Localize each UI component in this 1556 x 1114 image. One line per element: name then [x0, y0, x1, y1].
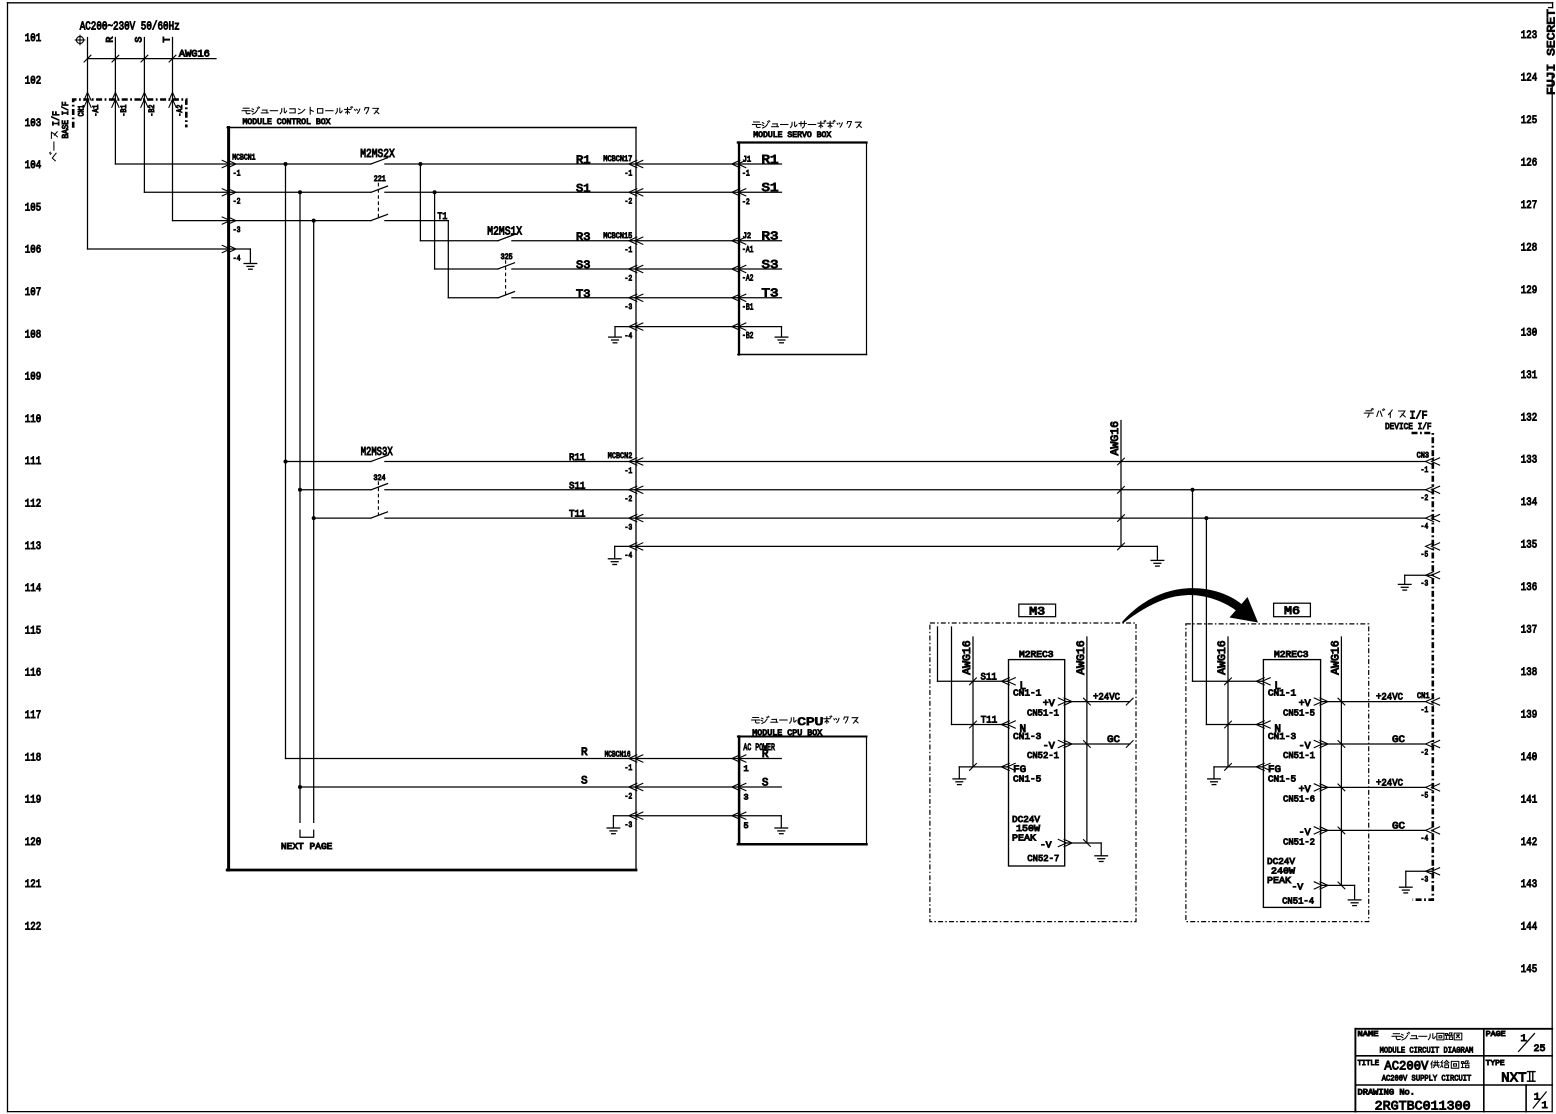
connector CN3 pin -2 chevron — [1426, 486, 1434, 493]
svg-text:-1: -1 — [625, 245, 633, 255]
svg-text:-5: -5 — [1421, 791, 1429, 801]
svg-text:TITLE: TITLE — [1358, 1060, 1380, 1068]
svg-text:MCBCN17: MCBCN17 — [603, 155, 632, 164]
svg-text:121: 121 — [25, 879, 42, 891]
switch M2MS3X pole 3 (T11) — [371, 512, 388, 518]
junction T11 / M6 tap — [1204, 516, 1208, 520]
connector MCBCN17 pin -2 chevron — [629, 189, 637, 196]
junction S1 / S3 tap — [433, 190, 437, 194]
svg-text:-3: -3 — [625, 302, 633, 312]
junction bus S / CPU S — [298, 785, 302, 789]
wire T11 (switch to CN3-4) — [385, 517, 1426, 519]
connector CN1 pin -1 chevron — [1426, 698, 1434, 705]
svg-text:-2: -2 — [742, 197, 750, 207]
connector MCBCN1 pin -3 chevron — [222, 217, 230, 224]
svg-text:PAGE: PAGE — [1486, 1031, 1507, 1039]
wire R11 (bus R to switch) — [286, 461, 372, 463]
module M3 designator box — [1019, 604, 1056, 617]
svg-text:-2: -2 — [1421, 493, 1429, 503]
svg-text:-A2: -A2 — [742, 274, 754, 284]
svg-text:-3: -3 — [1421, 579, 1429, 589]
svg-text:102: 102 — [25, 76, 41, 88]
pin FG CN1-5 chevron (M6) — [1256, 763, 1264, 770]
svg-text:NEXT PAGE: NEXT PAGE — [281, 841, 333, 852]
svg-text:S1: S1 — [576, 184, 591, 196]
power supply U-M3 M2REC3 box — [1009, 660, 1065, 866]
svg-text:124: 124 — [1521, 73, 1538, 85]
module M6 designator box — [1274, 603, 1311, 617]
svg-text:3: 3 — [744, 792, 749, 802]
svg-text:R11: R11 — [569, 453, 585, 464]
next page continuation bracket — [300, 830, 314, 837]
svg-text:I/F: I/F — [1410, 411, 1428, 423]
wire AC phase S drop — [143, 38, 145, 193]
svg-text:-3: -3 — [625, 820, 633, 830]
svg-text:AC200V SUPPLY CIRCUIT: AC200V SUPPLY CIRCUIT — [1382, 1074, 1472, 1084]
svg-text:106: 106 — [25, 245, 41, 257]
wire S3 drop vertical — [434, 192, 436, 269]
svg-text:CN51-6: CN51-6 — [1283, 793, 1315, 804]
junction bus R / R1 — [284, 162, 288, 166]
svg-text:AC200V: AC200V — [1384, 1060, 1428, 1074]
svg-text:-1: -1 — [1421, 705, 1429, 715]
svg-text:S: S — [762, 778, 769, 790]
box MODULE CPU BOX — [738, 737, 741, 845]
ground at MCBCN2 -4 (inside control box) — [615, 545, 636, 547]
wire S11 feed into M3 — [937, 627, 939, 681]
svg-text:136: 136 — [1521, 582, 1537, 594]
svg-text:-1: -1 — [233, 168, 241, 178]
connector J2 pin -A1 chevron — [732, 237, 740, 244]
svg-text:-1: -1 — [625, 466, 633, 476]
connector CN1 pin -5 chevron — [1426, 784, 1434, 791]
wire gnd (MCBCN2-4 to bundle end) — [636, 545, 1121, 547]
svg-text:1: 1 — [1534, 1092, 1540, 1104]
svg-text:-3: -3 — [233, 225, 241, 235]
wire-gauge marker AWG16 (top bundle) — [88, 58, 217, 60]
wire T11 (bus T to switch) — [314, 517, 371, 519]
wire FG to ground (M6) — [1214, 766, 1263, 768]
ground at servo J2 -B2 — [739, 326, 782, 328]
svg-text:-4: -4 — [625, 551, 633, 561]
wire AC phase T drop — [172, 38, 174, 221]
svg-text:111: 111 — [25, 456, 42, 468]
box MODULE SERVO BOX — [738, 143, 740, 355]
ground at M3 -V output — [1095, 855, 1108, 857]
svg-text:123: 123 — [1521, 30, 1537, 42]
svg-text:-V: -V — [1292, 883, 1304, 893]
connector MCBCN2 pin -2 chevron — [629, 486, 637, 493]
connector CN3 pin -3 chevron — [1426, 572, 1434, 579]
svg-text:-A1: -A1 — [93, 104, 101, 116]
pin -V CN51-4 chevron (M6) — [1314, 882, 1322, 889]
module M3 boundary (dashed box) — [930, 623, 1136, 922]
svg-text:M6: M6 — [1284, 606, 1300, 618]
svg-text:-B1: -B1 — [742, 302, 754, 312]
svg-text:MODULE CIRCUIT DIAGRAM: MODULE CIRCUIT DIAGRAM — [1380, 1045, 1474, 1055]
svg-text:CN1-3: CN1-3 — [1013, 731, 1042, 742]
svg-text:141: 141 — [1521, 794, 1538, 806]
ground at device bundle gnd wire — [1121, 545, 1157, 547]
svg-text:122: 122 — [25, 922, 41, 934]
wire T11 feed into M6 — [1205, 518, 1207, 724]
wire gnd stub inside CPU box — [739, 815, 781, 817]
ground at M6 -V output — [1348, 899, 1361, 901]
svg-text:AWG16: AWG16 — [179, 48, 210, 60]
wire-gauge marker AWG16 (device bundle) — [1120, 421, 1122, 547]
svg-text:MCBCN1: MCBCN1 — [232, 154, 255, 163]
connector J2 pin -B1 chevron — [732, 294, 740, 301]
wire +24VC output to CN1 -5 — [1321, 786, 1426, 788]
connector MCBCN2 pin -1 chevron — [629, 458, 637, 465]
svg-text:-3: -3 — [625, 522, 633, 532]
svg-text:GC: GC — [1392, 735, 1405, 746]
connector J2 pin -B2 chevron — [732, 323, 740, 330]
wire T3 (switch to servo J2-B1) — [512, 297, 739, 299]
svg-text:CN1-1: CN1-1 — [1013, 687, 1042, 698]
svg-text:T11: T11 — [981, 715, 997, 726]
junction bus T / T11 — [312, 516, 316, 520]
svg-text:MCBCN16: MCBCN16 — [605, 751, 631, 760]
svg-text:CN51-5: CN51-5 — [1283, 708, 1315, 719]
title module CPU box japanese — [752, 716, 797, 723]
svg-text:T11: T11 — [569, 510, 585, 521]
wire S11 (switch to CN3-2) — [385, 489, 1426, 491]
svg-text:I/F: I/F — [51, 111, 63, 126]
wire R3 drop vertical — [419, 164, 421, 241]
svg-text:119: 119 — [25, 795, 41, 807]
title device I/F japanese — [1364, 409, 1405, 418]
wire R3 (switch to servo J2-A1) — [512, 240, 739, 242]
svg-text:AWG16: AWG16 — [1331, 640, 1343, 675]
svg-text:2RGTBC011300: 2RGTBC011300 — [1375, 1099, 1471, 1114]
pin N CN1-3 chevron (M3) — [1001, 721, 1009, 728]
wire R1 (MCBCN1-1 to switch) — [229, 163, 371, 165]
svg-text:T1: T1 — [437, 211, 447, 223]
svg-text:135: 135 — [1521, 540, 1537, 552]
connector MCBCN15 pin -3 chevron — [629, 294, 637, 301]
wire-gauge marker AWG16 (M3 input) — [972, 637, 974, 767]
svg-text:-1: -1 — [625, 168, 633, 178]
svg-text:AWG16: AWG16 — [1217, 640, 1229, 675]
wire T3 stub inside servo box — [739, 297, 782, 299]
wire R1 stub inside servo box — [739, 163, 782, 165]
svg-text:-2: -2 — [1421, 747, 1429, 757]
svg-text:M3: M3 — [1029, 606, 1045, 618]
svg-text:PEAK: PEAK — [1267, 875, 1291, 886]
svg-text:M2REC3: M2REC3 — [1274, 650, 1309, 660]
svg-text:S11: S11 — [981, 672, 997, 683]
connector CPU pin 3 chevron — [732, 783, 740, 790]
title module control box japanese — [242, 107, 379, 115]
svg-text:145: 145 — [1521, 964, 1537, 976]
wire S1 (MCBCN1-2 to switch) — [229, 191, 371, 193]
svg-text:S11: S11 — [569, 481, 585, 492]
svg-text:108: 108 — [25, 329, 41, 341]
switch M2MS1X pole 2 (S3) — [435, 268, 498, 270]
svg-text:R1: R1 — [576, 155, 591, 167]
svg-text:-1: -1 — [1421, 465, 1429, 475]
wire bus R (vertical) — [285, 164, 287, 759]
connector MCBCN1 pin -2 chevron — [222, 189, 230, 196]
svg-text:133: 133 — [1521, 455, 1537, 467]
connector CN1 plug chevrons — [84, 92, 91, 100]
svg-text:R3: R3 — [576, 232, 590, 244]
svg-text:+24VC: +24VC — [1376, 693, 1403, 704]
wire R11 (switch to CN3-1) — [385, 461, 1426, 463]
ground at M3 FG — [953, 778, 966, 780]
switch M2MS1X pole 1 (R3) — [420, 240, 498, 242]
svg-text:GC: GC — [1107, 735, 1120, 746]
wire S stub inside CPU box — [739, 786, 781, 788]
ground at CN3 -3 — [1405, 574, 1433, 576]
wire +24VC output to CN1 -1 — [1321, 701, 1426, 703]
svg-text:101: 101 — [25, 33, 42, 45]
box MODULE CONTROL BOX — [227, 128, 230, 871]
svg-text:+24VC: +24VC — [1093, 693, 1120, 704]
wire -V to ground (M3) — [1065, 842, 1102, 844]
svg-text:S: S — [581, 776, 588, 788]
svg-text:-4: -4 — [625, 331, 633, 341]
wire GC output (M3) — [1065, 743, 1130, 745]
wire S3 (switch to servo J2-A2) — [512, 268, 739, 270]
wire gnd (MCBCN15-4 to servo J2-B2) — [636, 326, 739, 328]
pin L CN1-1 chevron (M3) — [1001, 678, 1009, 685]
switch M2MS2X linkage (dashed) — [377, 183, 379, 217]
svg-text:R: R — [105, 37, 116, 43]
wire S11 feed into M6 — [1192, 490, 1194, 682]
svg-text:110: 110 — [25, 414, 42, 426]
svg-text:R1: R1 — [762, 154, 779, 167]
svg-text:-B1: -B1 — [121, 104, 129, 116]
svg-text:-2: -2 — [233, 197, 241, 207]
wire-gauge marker AWG16 (M6 input) — [1227, 637, 1229, 767]
svg-text:R: R — [762, 749, 769, 761]
wire R3 stub inside servo box — [739, 240, 782, 242]
connector CN3 pin -5 chevron — [1426, 543, 1434, 550]
svg-text:MODULE SERVO BOX: MODULE SERVO BOX — [753, 130, 831, 140]
svg-text:R3: R3 — [762, 231, 779, 244]
svg-text:-1: -1 — [742, 169, 750, 179]
svg-text:114: 114 — [25, 583, 42, 595]
wire GC output to CN1 -4 — [1321, 829, 1426, 831]
svg-text:144: 144 — [1521, 922, 1538, 934]
svg-text:129: 129 — [1521, 285, 1537, 297]
ground at CN1 -3 — [1406, 870, 1433, 872]
svg-text:CN52-7: CN52-7 — [1027, 853, 1059, 864]
svg-text:103: 103 — [25, 118, 41, 130]
svg-text:MCBCN2: MCBCN2 — [608, 452, 633, 461]
wire S1 stub inside servo box — [739, 191, 782, 193]
svg-text:5: 5 — [744, 821, 749, 831]
connector CN1 BASE I/F (dash-dot boundary) — [73, 100, 186, 128]
svg-text:115: 115 — [25, 625, 41, 637]
wire gnd (control box to CPU box) — [636, 815, 739, 817]
wire FG to ground (M3) — [959, 766, 1008, 768]
connector boundary DEVICE I/F (dash-dot line) — [1412, 433, 1433, 900]
switch M2MS2X pole 2 (S1) — [371, 186, 388, 192]
connector MCBCN15 pin -1 chevron — [629, 237, 637, 244]
svg-text:CN1-5: CN1-5 — [1013, 774, 1042, 785]
svg-text:-1: -1 — [625, 763, 633, 773]
wire bus S (vertical) — [299, 192, 301, 822]
connector MCBCN2 pin -4 chevron — [629, 543, 637, 550]
pin +V CN51-6 chevron (M6) — [1314, 784, 1322, 791]
svg-text:-V: -V — [1040, 841, 1052, 851]
svg-text:-4: -4 — [1421, 521, 1429, 531]
wire-gauge marker AWG16 (M6 output) — [1340, 637, 1342, 885]
svg-text:138: 138 — [1521, 667, 1537, 679]
label base I/F japanese (rotated) — [50, 132, 58, 161]
svg-text:FUJI SECRET: FUJI SECRET — [1547, 9, 1556, 95]
svg-text:130: 130 — [1521, 327, 1538, 339]
svg-text:S3: S3 — [576, 260, 590, 272]
svg-text:MCBCN15: MCBCN15 — [603, 232, 632, 241]
svg-text:CN1: CN1 — [1417, 693, 1430, 701]
svg-text:CN51-2: CN51-2 — [1283, 836, 1315, 847]
svg-text:T3: T3 — [576, 289, 590, 301]
wire T (MCBCN1-3 to switch) — [229, 220, 371, 222]
wire AC phase R drop — [114, 38, 116, 165]
svg-text:S3: S3 — [762, 259, 779, 272]
svg-text:CN51-4: CN51-4 — [1282, 896, 1314, 907]
connector J1 pin -2 chevron — [732, 189, 740, 196]
wire S (control box to CPU box) — [636, 786, 739, 788]
ground at MCBCN15 -4 (inside control box) — [615, 326, 636, 328]
svg-text:M2MS2X: M2MS2X — [360, 148, 395, 161]
wire-gauge marker AWG16 (M3 output) — [1086, 637, 1088, 843]
svg-text:131: 131 — [1521, 370, 1538, 382]
svg-text:-2: -2 — [625, 197, 633, 207]
svg-text:AWG16: AWG16 — [1110, 421, 1122, 456]
connector CN3 pin -1 chevron — [1426, 458, 1434, 465]
wire S11 (bus S to switch) — [300, 489, 371, 491]
svg-text:CN3: CN3 — [1417, 452, 1430, 460]
wire bus T (vertical) — [313, 221, 315, 823]
pin -V CN51-2 chevron (M6) — [1314, 827, 1322, 834]
ground at MCBCN16 -3 (inside control box) — [613, 815, 636, 817]
svg-text:-2: -2 — [625, 494, 633, 504]
svg-text:128: 128 — [1521, 242, 1537, 254]
svg-text:140: 140 — [1521, 752, 1538, 764]
connector MCBCN16 pin -3 chevron — [629, 812, 637, 819]
svg-text:J1: J1 — [743, 156, 752, 165]
pin -V CN52-1 chevron (M3) — [1058, 740, 1066, 747]
ground at MCBCN1 -4 — [230, 248, 250, 250]
pin FG CN1-5 chevron (M3) — [1001, 763, 1009, 770]
svg-text:104: 104 — [25, 160, 42, 172]
connector MCBCN16 pin -2 chevron — [629, 783, 637, 790]
wire AC earth vertical drop — [87, 38, 89, 250]
wire T1 (switch to corner) — [385, 220, 448, 222]
svg-text:NXT: NXT — [1501, 1071, 1527, 1086]
svg-text:-B2: -B2 — [149, 104, 157, 116]
ground at CPU pin 5 — [775, 827, 788, 829]
connector CN1 pin -4 chevron — [1426, 827, 1434, 834]
svg-text:107: 107 — [25, 287, 41, 299]
arrow M3 to M6 (thick curved) — [1122, 588, 1258, 623]
wire T11 feed into M3 — [951, 627, 953, 725]
wire R (control box to CPU box) — [636, 758, 739, 760]
wire R (bus R to MCBCN16-1) — [286, 758, 637, 760]
svg-text:CN1: CN1 — [78, 105, 86, 117]
svg-text:139: 139 — [1521, 709, 1537, 721]
svg-text:325: 325 — [501, 254, 513, 262]
power supply U-M6 M2REC3 box — [1263, 660, 1320, 908]
wire R1 (switch to servo J1-1) — [385, 163, 739, 165]
svg-text:-2: -2 — [625, 791, 633, 801]
connector J1 pin -1 chevron — [732, 160, 740, 167]
svg-text:M2MS3X: M2MS3X — [361, 446, 393, 459]
svg-text:R: R — [581, 747, 588, 759]
connector MCBCN1 pin -4 chevron — [222, 245, 230, 252]
svg-text:134: 134 — [1521, 497, 1538, 509]
svg-text:CN1-3: CN1-3 — [1268, 731, 1297, 742]
switch M2MS3X pole 2 (S11) — [371, 484, 388, 490]
junction bus T / T1 — [312, 219, 316, 223]
svg-text:-2: -2 — [625, 273, 633, 283]
connector CN1 pin -2 chevron — [1426, 740, 1434, 747]
svg-text:+24VC: +24VC — [1376, 778, 1403, 789]
svg-text:-3: -3 — [1421, 875, 1429, 885]
svg-text:-4: -4 — [233, 253, 241, 263]
svg-text:J2: J2 — [743, 232, 752, 241]
pin +V CN51-1 chevron (M3) — [1058, 698, 1066, 705]
pin -V CN51-1 chevron (M6) — [1314, 740, 1322, 747]
svg-text:120: 120 — [25, 837, 42, 849]
svg-text:S: S — [134, 37, 145, 43]
svg-text:T: T — [162, 37, 173, 43]
svg-text:127: 127 — [1521, 200, 1537, 212]
svg-text:AC POWER: AC POWER — [743, 743, 775, 754]
svg-text:-A2: -A2 — [177, 104, 185, 116]
svg-text:DEVICE I/F: DEVICE I/F — [1385, 422, 1432, 432]
svg-text:105: 105 — [25, 202, 41, 214]
connector MCBCN16 pin -1 chevron — [629, 755, 637, 762]
switch M2MS1X pole 3 (T3) — [448, 297, 498, 299]
svg-text:MODULE CONTROL BOX: MODULE CONTROL BOX — [243, 117, 331, 127]
wire GC output to CN1 -2 — [1321, 743, 1426, 745]
svg-text:DRAWING No.: DRAWING No. — [1358, 1089, 1416, 1098]
connector CPU pin 5 chevron — [732, 812, 740, 819]
svg-text:-5: -5 — [1421, 550, 1429, 560]
svg-text:117: 117 — [25, 710, 41, 722]
switch M2MS2X pole 1 (R1) — [371, 158, 388, 164]
svg-text:AC200~230V 50/60Hz: AC200~230V 50/60Hz — [80, 21, 180, 34]
svg-text:116: 116 — [25, 668, 41, 680]
svg-text:-A1: -A1 — [742, 245, 754, 255]
junction bus S / S1 — [298, 190, 302, 194]
svg-text:-B2: -B2 — [742, 331, 754, 341]
pin N CN1-3 chevron (M6) — [1256, 721, 1264, 728]
svg-text:126: 126 — [1521, 158, 1537, 170]
svg-text:1: 1 — [1542, 1100, 1548, 1112]
junction S11 / M6 tap — [1191, 488, 1195, 492]
wire S1 (switch to servo J1-2) — [385, 191, 739, 193]
svg-text:M2MS1X: M2MS1X — [487, 226, 522, 239]
svg-text:112: 112 — [25, 499, 41, 511]
svg-text:AWG16: AWG16 — [962, 640, 974, 675]
wire R stub inside CPU box — [739, 758, 781, 760]
svg-text:143: 143 — [1521, 879, 1537, 891]
svg-text:132: 132 — [1521, 412, 1537, 424]
connector J2 pin -A2 chevron — [732, 265, 740, 272]
svg-text:324: 324 — [374, 475, 386, 483]
wire S3 stub inside servo box — [739, 268, 782, 270]
svg-text:137: 137 — [1521, 625, 1537, 637]
svg-text:CN51-1: CN51-1 — [1027, 708, 1059, 719]
connector CN1 pin -3 chevron — [1426, 868, 1434, 875]
